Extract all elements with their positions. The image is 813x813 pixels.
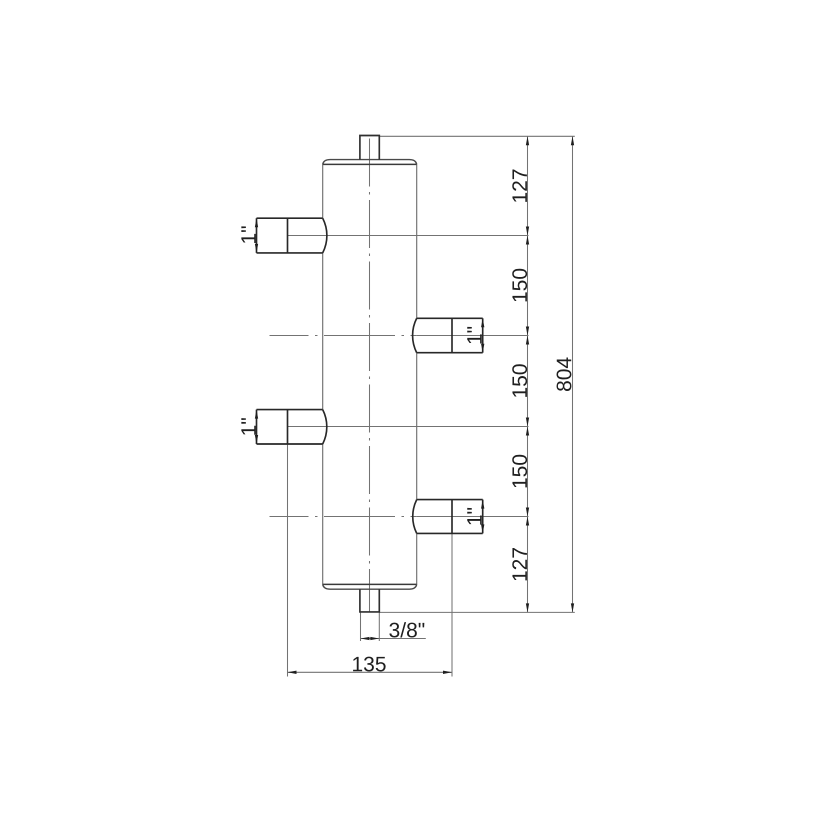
label 1-inch L1	[241, 226, 255, 243]
arrow pair at port L2 centerline	[526, 418, 529, 427]
804 dimension line	[572, 136, 574, 612]
arrow pair at port R2 centerline	[526, 508, 529, 517]
label 127 top	[512, 170, 527, 202]
centerline port L1	[288, 235, 529, 237]
centerline port R2 solid	[417, 516, 529, 518]
3/8 dimension line	[361, 638, 426, 640]
135 dimension line	[288, 671, 453, 673]
body left wall	[322, 164, 324, 218]
port R2 dim arrows	[481, 500, 484, 509]
3/8 dim arrows	[361, 637, 370, 640]
3/8 extension left	[360, 612, 362, 641]
centerline port R2 dashed	[270, 516, 417, 518]
label 1-inch L2	[241, 418, 255, 435]
centerline port R1 solid	[417, 335, 529, 337]
bottom nipple	[360, 589, 379, 612]
port R1 dim arrows	[481, 318, 484, 327]
label 1-inch R2	[467, 508, 481, 525]
port L1	[257, 217, 323, 219]
3/8 extension right	[378, 612, 380, 641]
body walls	[323, 164, 417, 584]
label 804	[557, 358, 572, 392]
label 127 bottom	[512, 548, 527, 580]
chain dimension line 127/150	[527, 136, 529, 612]
arrowheads	[255, 136, 574, 674]
label 150 #2	[512, 364, 527, 397]
port L2 dim arrows	[255, 410, 258, 419]
wire	[270, 136, 575, 676]
label 150 #1	[512, 269, 527, 302]
port R2	[417, 499, 483, 501]
135 dim arrows	[288, 671, 297, 674]
body outline	[323, 136, 417, 612]
bottom extension line	[379, 611, 575, 613]
bottom cap	[323, 584, 417, 589]
body bottom edge	[323, 583, 417, 585]
body top edge	[323, 163, 417, 165]
centerline port L2	[288, 426, 529, 428]
arrow chain top (127)	[526, 136, 529, 145]
arrow pair at port R1 centerline	[526, 327, 529, 336]
vertical centerline	[369, 139, 371, 613]
label 3/8-inch	[389, 622, 424, 637]
port L2	[257, 409, 323, 411]
804 dim arrows	[571, 136, 574, 145]
top extension line	[379, 135, 575, 137]
135 extension left	[287, 444, 289, 677]
arrow pair at port L1 centerline	[526, 227, 529, 236]
top cap	[323, 160, 417, 165]
centerline port R1 dashed	[270, 335, 417, 337]
top nipple	[360, 136, 379, 160]
label 150 #3	[512, 455, 527, 488]
port R1	[417, 317, 483, 319]
body right wall	[416, 164, 418, 318]
ports	[257, 218, 483, 533]
arrow chain bottom (127)	[526, 603, 529, 612]
port L1 dim arrows	[255, 218, 258, 227]
label 1-inch R1	[467, 327, 481, 344]
135 extension right	[451, 533, 453, 676]
label 135	[353, 657, 386, 672]
